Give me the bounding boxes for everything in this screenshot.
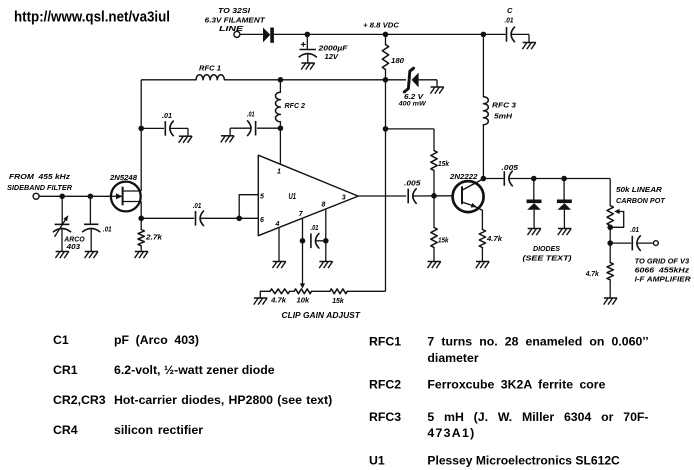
junction [59, 194, 65, 200]
svg-text:12V: 12V [325, 52, 339, 61]
pin 3 [342, 195, 346, 202]
ground [522, 43, 535, 50]
svg-text:6.2-volt, ½-watt zener diode: 6.2-volt, ½-watt zener diode [114, 363, 275, 377]
svg-text:LINE: LINE [219, 24, 244, 33]
node: input terminal [33, 193, 39, 199]
junction [531, 176, 537, 182]
svg-text:TO 32SI: TO 32SI [218, 6, 251, 15]
capacitor .005 base coupling [408, 189, 416, 204]
svg-text:15k: 15k [438, 159, 450, 168]
capacitor .01 drain bypass [141, 121, 188, 136]
label 4.7k [486, 234, 503, 243]
svg-text:3: 3 [342, 195, 346, 202]
wire [386, 128, 435, 130]
junction: collector node [481, 176, 487, 182]
svg-text:180: 180 [391, 56, 405, 65]
svg-text:2N5248: 2N5248 [109, 173, 138, 182]
svg-text:CLIP GAIN ADJUST: CLIP GAIN ADJUST [282, 311, 362, 320]
svg-text:5 mH (J. W. Miller 6304 or 70F: 5 mH (J. W. Miller 6304 or 70F- [427, 410, 648, 424]
label 15k [332, 296, 344, 305]
label 2000uF / 12V [317, 44, 348, 61]
wire [610, 242, 631, 244]
svg-text:silicon rectifier: silicon rectifier [114, 423, 203, 437]
svg-text:4.7k: 4.7k [270, 296, 287, 305]
label U1 [289, 192, 297, 201]
junction [607, 225, 613, 231]
parts list left column [53, 333, 332, 437]
inductor RFC3 5mH [483, 34, 488, 178]
svg-text:http://www.qsl.net/va3iul: http://www.qsl.net/va3iul [14, 10, 170, 26]
pin 5 [260, 194, 264, 201]
svg-text:.01: .01 [311, 223, 319, 232]
svg-text:RFC2: RFC2 [369, 378, 401, 392]
svg-text:4.7k: 4.7k [585, 269, 600, 278]
svg-text:15k: 15k [438, 236, 449, 245]
wire: +8.8VDC rail [274, 33, 506, 35]
svg-text:RFC 2: RFC 2 [285, 101, 306, 110]
pin 8 [322, 202, 326, 209]
label .01 [162, 111, 172, 120]
svg-text:RFC 1: RFC 1 [199, 64, 221, 73]
diode CR2 hot-carrier [527, 179, 542, 229]
wire [200, 217, 258, 219]
capacitor C1 ARCO 403 variable [53, 196, 70, 251]
wire: FET source [140, 202, 142, 219]
ground [135, 252, 148, 259]
svg-text:7 turns no. 28 enameled on 0.0: 7 turns no. 28 enameled on 0.060’’ [427, 335, 648, 349]
wire [483, 178, 504, 180]
label 50k LINEAR / CARBON POT [616, 185, 666, 205]
svg-text:8: 8 [322, 202, 326, 209]
svg-text:400 mW: 400 mW [398, 101, 427, 108]
svg-text:FROM 455 kHz: FROM 455 kHz [9, 172, 70, 181]
wire [347, 290, 385, 292]
resistor 2.7k source bias [138, 218, 144, 251]
junction [305, 32, 311, 38]
wire [609, 226, 611, 244]
ground [85, 252, 98, 259]
svg-text:TO GRID OF V3: TO GRID OF V3 [635, 256, 690, 265]
label ARCO / 403 [63, 235, 84, 251]
svg-text:Ferroxcube 3K2A ferrite core: Ferroxcube 3K2A ferrite core [427, 378, 605, 392]
capacitor .01 coupling [196, 211, 204, 226]
node: filament line input terminal [234, 31, 240, 37]
svg-text:.01: .01 [103, 225, 112, 234]
svg-text:10k: 10k [297, 296, 311, 305]
wire [312, 290, 330, 292]
svg-text:403: 403 [66, 242, 81, 251]
capacitor C .01 bypass [507, 27, 530, 42]
svg-text:6066 455kHz: 6066 455kHz [635, 266, 690, 275]
svg-text:.01: .01 [162, 111, 172, 120]
junction [300, 238, 306, 244]
svg-text:Plessey Microelectronics SL612: Plessey Microelectronics SL612C [427, 454, 620, 468]
transistor Q1 JFET 2N5248 [111, 182, 141, 212]
svg-text:.005: .005 [404, 179, 421, 188]
svg-text:5: 5 [260, 194, 264, 201]
potentiometer 50k linear carbon [607, 206, 624, 228]
wire [141, 217, 194, 219]
ground [179, 136, 192, 143]
svg-text:6: 6 [260, 217, 264, 224]
svg-text:U1: U1 [289, 192, 297, 201]
svg-text:C: C [507, 6, 513, 15]
svg-text:+ 8.8 VDC: + 8.8 VDC [363, 21, 400, 30]
label TO 32SI / 6.3V FILAMENT / LINE [205, 6, 267, 33]
label 2N2222 [449, 172, 478, 181]
svg-text:4.7k: 4.7k [486, 234, 503, 243]
resistor 15k upper [431, 129, 437, 196]
svg-text:4: 4 [275, 221, 280, 228]
label 4.7k [270, 296, 287, 305]
svg-text:pF (Arco 403): pF (Arco 403) [114, 333, 199, 347]
wire: pin 4 [278, 228, 280, 262]
wire [39, 195, 111, 197]
svg-text:.01: .01 [630, 225, 639, 234]
resistor 4.7k emitter [479, 230, 485, 262]
svg-text:U1: U1 [369, 454, 385, 468]
label C / .01 [505, 6, 514, 24]
svg-text:50k LINEAR: 50k LINEAR [616, 185, 663, 194]
wire [290, 290, 295, 292]
capacitor 2000uF 12V [299, 34, 316, 63]
label TO GRID OF V3 / 6066 455kHz / I-F AMPLIFIER [635, 256, 692, 283]
capacitor .01 input bypass [83, 196, 100, 251]
pin 6 [260, 217, 264, 224]
junction [383, 32, 389, 38]
resistor 4.7k output [607, 243, 613, 298]
label 15k [438, 159, 450, 168]
label RFC 1 [199, 64, 221, 73]
wire [509, 178, 610, 180]
junction [88, 194, 94, 200]
wire [637, 242, 653, 244]
wire [240, 33, 263, 35]
resistor 4.7k clip chain [270, 289, 290, 294]
ground [272, 262, 285, 269]
parts list right column [369, 335, 649, 468]
transistor Q2 2N2222 [453, 179, 484, 212]
wire: 6.2V bus [385, 80, 387, 291]
svg-text:.005: .005 [502, 163, 519, 172]
svg-text:SIDEBAND FILTER: SIDEBAND FILTER [7, 183, 73, 192]
ground [476, 262, 489, 269]
junction [236, 216, 242, 222]
junction [138, 216, 144, 222]
svg-text:CR2,CR3: CR2,CR3 [53, 393, 106, 407]
label CLIP GAIN ADJUST [282, 311, 362, 320]
junction [561, 176, 567, 182]
svg-text:DIODES: DIODES [533, 244, 560, 253]
pin 7 [299, 211, 304, 218]
zener diode CR1 6.2V 400mW [386, 68, 438, 92]
ground [221, 136, 234, 143]
label .01 [193, 201, 202, 210]
junction: base node [431, 193, 437, 199]
svg-text:5mH: 5mH [494, 112, 513, 121]
wire [224, 79, 385, 81]
svg-text:I-F AMPLIFIER: I-F AMPLIFIER [635, 274, 692, 283]
svg-text:RFC3: RFC3 [369, 410, 401, 424]
ground [319, 262, 332, 269]
label 15k [438, 236, 449, 245]
label DIODES (SEE TEXT) [523, 244, 573, 262]
label .01 [311, 223, 319, 232]
junction [278, 125, 284, 131]
label .005 [404, 179, 421, 188]
wire [141, 79, 196, 81]
svg-text:15k: 15k [332, 296, 344, 305]
pin 4 [275, 221, 280, 228]
wire: op-amp output [358, 195, 406, 197]
junction: 6.2V node [383, 77, 389, 83]
potentiometer 10k clip gain [294, 289, 311, 294]
ground [301, 63, 314, 70]
wire [315, 240, 325, 242]
capacitor .01 RFC2 bypass [230, 121, 280, 136]
ground [427, 262, 440, 269]
svg-text:.01: .01 [193, 201, 202, 210]
junction [383, 126, 389, 132]
label FROM 455 kHz / SIDEBAND FILTER [7, 172, 73, 192]
label 2.7k [145, 233, 163, 242]
label .01 [630, 225, 639, 234]
svg-text:(SEE TEXT): (SEE TEXT) [523, 253, 573, 262]
svg-text:.01: .01 [505, 15, 514, 24]
pin 1 [277, 169, 281, 176]
ground [604, 298, 617, 305]
svg-text:CR1: CR1 [53, 363, 78, 377]
svg-text:2N2222: 2N2222 [449, 172, 478, 181]
label 4.7k [585, 269, 600, 278]
ground [430, 87, 443, 94]
ground [528, 229, 541, 236]
svg-text:473A1): 473A1) [427, 426, 475, 440]
svg-text:2.7k: 2.7k [145, 233, 163, 242]
label .01 [103, 225, 112, 234]
label .01 [247, 110, 255, 119]
op-amp U1 SL612C [258, 155, 358, 236]
junction [138, 126, 144, 132]
svg-text:RFC 3: RFC 3 [492, 101, 517, 110]
label RFC 3 / 5mH [492, 101, 517, 121]
wire [413, 195, 453, 197]
resistor 15k clip chain [330, 289, 347, 294]
label RFC 2 [285, 101, 306, 110]
junction [278, 77, 284, 83]
svg-text:1: 1 [277, 169, 281, 176]
wire [260, 291, 270, 298]
header url text [14, 10, 170, 26]
wire [609, 179, 611, 206]
wire: pin 7 to pot wiper [300, 218, 305, 288]
capacitor .01 output coupling [632, 236, 640, 251]
resistor 180 [382, 34, 388, 79]
svg-text:diameter: diameter [427, 351, 478, 365]
ground [558, 229, 571, 236]
label 2N5248 [109, 173, 138, 182]
svg-text:CR4: CR4 [53, 423, 78, 437]
wire: emitter [481, 210, 483, 229]
resistor 15k lower [431, 196, 437, 262]
wire: pin 8 [325, 209, 327, 262]
ground [254, 298, 267, 305]
wire: FET drain [140, 80, 142, 191]
svg-text:Hot-carrier diodes, HP2800 (se: Hot-carrier diodes, HP2800 (see text) [114, 393, 332, 407]
junction [481, 32, 487, 38]
label 10k [297, 296, 311, 305]
svg-text:.01: .01 [247, 110, 255, 119]
label .005 [502, 163, 519, 172]
node: output terminal [654, 241, 659, 246]
ground [55, 252, 68, 259]
svg-text:CARBON POT: CARBON POT [616, 196, 666, 205]
diode CR3 hot-carrier [557, 179, 572, 229]
svg-text:C1: C1 [53, 333, 69, 347]
svg-text:RFC1: RFC1 [369, 335, 401, 349]
junction [323, 238, 329, 244]
inductor RFC1 [196, 75, 224, 80]
capacitor .005 output coupling [504, 171, 512, 186]
label 6.2V / 400 mW [398, 92, 427, 108]
wire: to op-amp pin 1 [279, 128, 281, 164]
diode CR4 silicon rectifier [263, 28, 274, 43]
svg-text:6.3V FILAMENT: 6.3V FILAMENT [205, 15, 267, 24]
label 180 [391, 56, 405, 65]
label +8.8VDC [363, 21, 400, 30]
wire: to pin 5 [239, 195, 258, 219]
svg-text:7: 7 [299, 211, 304, 218]
inductor RFC2 [276, 80, 281, 128]
capacitor .01 pins 7-8 [311, 234, 319, 249]
junction [607, 240, 613, 246]
